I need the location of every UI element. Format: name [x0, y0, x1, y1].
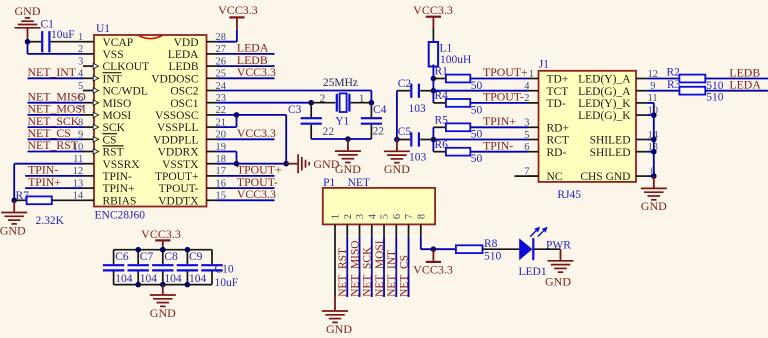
- svg-text:VDDTX: VDDTX: [158, 195, 199, 207]
- svg-text:2.32K: 2.32K: [36, 215, 65, 227]
- svg-text:TPIN+: TPIN+: [28, 175, 61, 189]
- svg-text:104: 104: [164, 273, 182, 285]
- svg-text:4: 4: [367, 213, 378, 219]
- svg-text:TPIN+: TPIN+: [103, 183, 135, 195]
- svg-text:CS: CS: [103, 134, 117, 146]
- svg-text:VDD: VDD: [174, 37, 199, 49]
- svg-text:SHILED: SHILED: [590, 147, 631, 159]
- svg-text:LED(Y)_K: LED(Y)_K: [578, 98, 631, 110]
- svg-text:VCC3.3: VCC3.3: [413, 263, 453, 277]
- svg-text:GND: GND: [150, 306, 176, 320]
- svg-text:VSSOSC: VSSOSC: [155, 110, 199, 122]
- svg-text:VSSRX: VSSRX: [103, 159, 141, 171]
- svg-text:C6: C6: [115, 251, 129, 263]
- svg-text:C4: C4: [373, 104, 387, 116]
- svg-text:50: 50: [471, 104, 483, 116]
- svg-text:NET_CS: NET_CS: [398, 255, 410, 297]
- svg-text:10uF: 10uF: [51, 29, 75, 41]
- svg-text:MOSI: MOSI: [103, 110, 132, 122]
- svg-text:LEDA: LEDA: [729, 78, 761, 92]
- svg-text:TD-: TD-: [547, 98, 566, 110]
- svg-text:NC/WDL: NC/WDL: [103, 86, 148, 98]
- svg-text:LED(G)_A: LED(G)_A: [578, 86, 631, 98]
- svg-text:VCC3.3: VCC3.3: [237, 126, 276, 140]
- svg-text:TPOUT-: TPOUT-: [159, 183, 199, 195]
- svg-text:TD+: TD+: [547, 74, 569, 86]
- svg-text:RD+: RD+: [547, 122, 569, 134]
- svg-text:510: 510: [484, 251, 502, 263]
- svg-text:C5: C5: [398, 126, 412, 138]
- svg-text:2: 2: [320, 93, 326, 105]
- svg-text:P1: P1: [323, 177, 335, 189]
- svg-text:100uH: 100uH: [440, 54, 471, 66]
- svg-text:RD-: RD-: [547, 147, 567, 159]
- svg-text:6: 6: [392, 214, 403, 219]
- svg-text:TPIN+: TPIN+: [483, 114, 516, 128]
- svg-text:510: 510: [706, 92, 724, 104]
- svg-text:R8: R8: [484, 238, 498, 250]
- svg-text:SCK: SCK: [103, 122, 126, 134]
- svg-text:L1: L1: [440, 42, 453, 54]
- svg-text:VDDOSC: VDDOSC: [151, 73, 199, 85]
- svg-text:VSSPLL: VSSPLL: [157, 122, 199, 134]
- svg-text:3: 3: [78, 56, 83, 67]
- svg-text:VSS: VSS: [103, 49, 124, 61]
- svg-text:5: 5: [380, 214, 391, 219]
- svg-text:C3: C3: [288, 104, 302, 116]
- svg-text:NET_MISO: NET_MISO: [349, 240, 361, 296]
- svg-text:R6: R6: [435, 139, 449, 151]
- svg-text:TPOUT+: TPOUT+: [155, 171, 199, 183]
- svg-text:NC: NC: [547, 171, 563, 183]
- svg-text:NET: NET: [348, 177, 370, 189]
- svg-text:8: 8: [416, 214, 427, 219]
- svg-text:R2: R2: [667, 67, 681, 79]
- svg-text:RCT: RCT: [547, 135, 569, 147]
- svg-text:GND: GND: [15, 4, 41, 18]
- svg-text:NET_RST: NET_RST: [28, 138, 79, 152]
- svg-text:104: 104: [140, 273, 158, 285]
- svg-text:1: 1: [359, 93, 365, 105]
- svg-text:NET_INT: NET_INT: [386, 250, 398, 297]
- svg-text:NET_INT: NET_INT: [28, 65, 77, 79]
- svg-text:C2: C2: [398, 78, 412, 90]
- svg-text:C7: C7: [140, 251, 154, 263]
- svg-text:GND: GND: [545, 275, 571, 289]
- svg-text:510: 510: [706, 80, 724, 92]
- svg-text:TPIN-: TPIN-: [483, 138, 513, 152]
- svg-text:VSSTX: VSSTX: [162, 159, 199, 171]
- svg-text:LEDB: LEDB: [168, 61, 198, 73]
- svg-text:OSC1: OSC1: [170, 98, 198, 110]
- svg-text:C9: C9: [189, 251, 203, 263]
- svg-text:2: 2: [343, 214, 354, 219]
- svg-text:LED(G)_K: LED(G)_K: [578, 110, 631, 122]
- svg-text:TPOUT-: TPOUT-: [483, 90, 524, 104]
- svg-text:SHILED: SHILED: [590, 135, 631, 147]
- svg-text:1: 1: [331, 214, 342, 219]
- svg-text:TPIN-: TPIN-: [103, 171, 133, 183]
- svg-text:Y1: Y1: [335, 115, 349, 127]
- svg-text:50: 50: [471, 153, 483, 165]
- svg-text:RJ45: RJ45: [557, 189, 581, 201]
- svg-text:R5: R5: [435, 114, 449, 126]
- svg-text:VCAP: VCAP: [103, 37, 134, 49]
- svg-text:RST: RST: [103, 147, 124, 159]
- svg-text:MISO: MISO: [103, 98, 132, 110]
- svg-text:GND: GND: [0, 223, 26, 237]
- svg-text:R1: R1: [435, 66, 449, 78]
- svg-text:25MHz: 25MHz: [323, 77, 358, 89]
- svg-text:R7: R7: [16, 190, 30, 202]
- svg-text:VCC3.3: VCC3.3: [218, 3, 258, 17]
- svg-text:U1: U1: [96, 23, 110, 35]
- svg-text:R3: R3: [667, 79, 681, 91]
- svg-text:22: 22: [323, 126, 335, 138]
- svg-text:VCC3.3: VCC3.3: [141, 227, 181, 241]
- svg-text:VDDRX: VDDRX: [158, 147, 200, 159]
- svg-text:LED1: LED1: [519, 266, 547, 278]
- svg-text:VCC3.3: VCC3.3: [413, 3, 453, 17]
- svg-text:VCC3.3: VCC3.3: [237, 65, 276, 79]
- svg-text:CLKOUT: CLKOUT: [103, 61, 150, 73]
- svg-text:ENC28J60: ENC28J60: [95, 209, 146, 221]
- svg-text:C8: C8: [164, 251, 178, 263]
- svg-text:104: 104: [115, 273, 133, 285]
- svg-text:VDDPLL: VDDPLL: [153, 134, 198, 146]
- svg-text:RBIAS: RBIAS: [103, 195, 137, 207]
- svg-text:104: 104: [189, 273, 207, 285]
- svg-text:R4: R4: [435, 90, 449, 102]
- svg-text:J1: J1: [539, 59, 549, 71]
- svg-text:PWR: PWR: [546, 239, 571, 251]
- svg-text:LED(Y)_A: LED(Y)_A: [578, 74, 631, 86]
- svg-text:NET_SCK: NET_SCK: [362, 246, 374, 297]
- svg-text:GND: GND: [641, 199, 667, 213]
- svg-text:CHS GND: CHS GND: [580, 171, 630, 183]
- svg-text:22: 22: [373, 126, 385, 138]
- svg-text:NET_MOSI: NET_MOSI: [374, 240, 386, 297]
- svg-text:10uF: 10uF: [215, 277, 239, 289]
- svg-text:LEDA: LEDA: [168, 49, 199, 61]
- svg-text:TCT: TCT: [547, 86, 569, 98]
- svg-text:GND: GND: [335, 162, 361, 176]
- svg-text:103: 103: [409, 152, 427, 164]
- svg-text:OSC2: OSC2: [170, 86, 198, 98]
- svg-text:C10: C10: [215, 264, 234, 276]
- svg-text:VCC3.3: VCC3.3: [237, 187, 276, 201]
- svg-text:TPOUT+: TPOUT+: [483, 65, 528, 79]
- svg-text:NET_RST: NET_RST: [337, 248, 349, 297]
- svg-text:103: 103: [409, 103, 427, 115]
- svg-text:7: 7: [404, 214, 415, 219]
- svg-text:GND: GND: [326, 322, 352, 336]
- svg-text:INT: INT: [103, 73, 122, 85]
- svg-text:3: 3: [355, 214, 366, 219]
- svg-text:GND: GND: [384, 162, 410, 176]
